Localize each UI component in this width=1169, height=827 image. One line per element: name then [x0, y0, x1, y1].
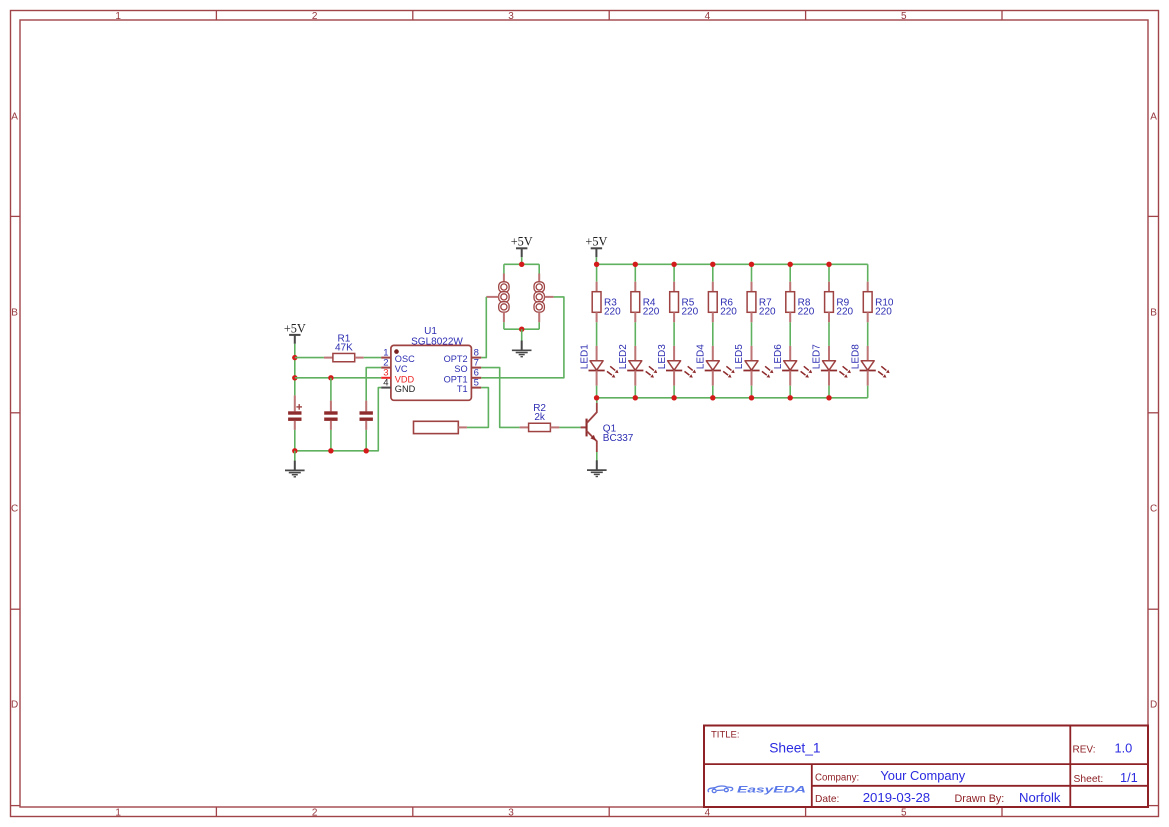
wire VDD rail to U1 pin 3 [295, 377, 381, 379]
svg-text:A: A [11, 112, 18, 123]
svg-text:OPT1: OPT1 [444, 374, 468, 384]
svg-text:LED2: LED2 [618, 344, 629, 369]
wire LED8 to bottom rail [867, 386, 869, 398]
wire R10 to LED8 [867, 322, 869, 346]
svg-text:220: 220 [836, 307, 853, 318]
svg-text:Sheet:: Sheet: [1074, 774, 1104, 785]
wire R3 to LED1 [596, 322, 598, 346]
wire left pad to bottom rail [503, 322, 505, 329]
wire top rail to right pad [538, 264, 540, 273]
wire R8 to LED6 [789, 322, 791, 346]
wire R5 to LED3 [673, 322, 675, 346]
wire LED5 to bottom rail [751, 386, 753, 398]
wire Q1 collector to LED rail [596, 398, 598, 403]
connector right touch pad [534, 274, 544, 323]
wire +5V left column upper [294, 344, 296, 396]
wire top rail to R7 [751, 264, 753, 281]
wire left pad to U1 OPT2 [481, 297, 486, 358]
svg-text:2: 2 [312, 11, 318, 22]
frame ruler numbers bottom [115, 808, 907, 819]
U1 pin 7 SO [454, 357, 481, 374]
svg-text:3: 3 [508, 11, 514, 22]
svg-text:+5V: +5V [585, 234, 607, 248]
LED LED6 [773, 344, 812, 386]
Date label [815, 794, 839, 805]
wire U1 T1 to touch plate [467, 388, 489, 428]
wire LED6 to bottom rail [789, 386, 791, 398]
rev value 1.0 [1115, 741, 1133, 756]
svg-text:2k: 2k [534, 412, 546, 423]
svg-text:2019-03-28: 2019-03-28 [863, 790, 930, 805]
wire LED bottom rail [597, 397, 868, 399]
junction top rail branch 6 [788, 262, 793, 267]
wire U1 pin 2 VC to C3 [366, 368, 381, 401]
junction bottom rail branch 4 [710, 395, 715, 400]
svg-text:C: C [11, 503, 18, 514]
wire R1 to U1 pin 1 [364, 357, 382, 359]
wire LED4 to bottom rail [712, 386, 714, 398]
svg-text:LED1: LED1 [579, 344, 590, 369]
wire pad bottom rail [504, 328, 539, 330]
power +5V (left) [284, 322, 306, 344]
svg-text:LED6: LED6 [773, 344, 784, 369]
svg-text:1: 1 [115, 808, 121, 819]
frame ruler numbers top [115, 11, 907, 22]
wire LED1 to bottom rail [596, 386, 598, 398]
LED LED7 [812, 344, 851, 386]
junction pad top rail [519, 262, 524, 267]
U1 pin 4 GND [381, 377, 415, 394]
wire C2 to ground rail [330, 430, 332, 451]
LED LED4 [696, 344, 735, 386]
svg-text:220: 220 [759, 307, 776, 318]
wire top rail to left pad [503, 264, 505, 273]
resistor R10 220 [863, 282, 894, 323]
svg-text:2: 2 [312, 808, 318, 819]
wire LED3 to bottom rail [673, 386, 675, 398]
svg-text:LED4: LED4 [696, 344, 707, 369]
wire pad top rail [504, 263, 539, 265]
junction bottom rail branch 1 [594, 395, 599, 400]
junction bottom rail branch 6 [788, 395, 793, 400]
wire R7 to LED5 [751, 322, 753, 346]
svg-text:VDD: VDD [395, 374, 415, 384]
capacitor C2 [324, 401, 337, 430]
connector left touch pad [499, 274, 509, 323]
junction bottom rail branch 5 [749, 395, 754, 400]
capacitor C1 (polarized) [288, 395, 302, 430]
resistor R9 220 [825, 282, 854, 323]
wire R4 to LED2 [634, 322, 636, 346]
frame ruler letters left [11, 112, 18, 711]
op-amp U1 SGL8022W body [391, 326, 472, 401]
svg-text:220: 220 [643, 307, 660, 318]
LED LED1 [579, 344, 618, 386]
U1 pin 6 OPT1 [444, 368, 482, 385]
wire top rail to R9 [828, 264, 830, 281]
date value 2019-03-28 [863, 790, 930, 805]
svg-text:U1: U1 [424, 326, 437, 337]
svg-text:B: B [11, 307, 18, 318]
resistor R7 220 [747, 282, 776, 323]
svg-text:4: 4 [705, 808, 711, 819]
wire top rail to R10 [867, 264, 869, 281]
U1 pin 8 OPT2 [444, 347, 482, 364]
svg-text:4: 4 [705, 11, 711, 22]
junction bottom rail branch 2 [633, 395, 638, 400]
wire C1 to ground rail [294, 430, 296, 451]
junction top rail branch 2 [633, 262, 638, 267]
resistor R2 2k [520, 403, 560, 431]
svg-text:Norfolk: Norfolk [1019, 790, 1061, 805]
LED LED8 [850, 344, 889, 386]
junction +5V / R1 [292, 355, 297, 360]
junction VDD / C2 [328, 375, 333, 380]
svg-text:LED3: LED3 [657, 344, 668, 369]
svg-text:BC337: BC337 [603, 433, 634, 444]
junction top rail branch 1 [594, 262, 599, 267]
Company label [815, 772, 859, 783]
wire R6 to LED4 [712, 322, 714, 346]
capacitor C3 [360, 401, 373, 430]
frame ruler letters right [1150, 112, 1157, 711]
resistor R4 220 [631, 282, 660, 323]
wire ground rail to U1 pin 4 [295, 388, 381, 451]
svg-text:B: B [1150, 307, 1157, 318]
svg-text:3: 3 [508, 808, 514, 819]
svg-text:220: 220 [604, 307, 621, 318]
title block TITLE label [711, 730, 740, 741]
wire C3 to ground rail [365, 430, 367, 451]
wire right pad to U1 OPT1 [481, 297, 564, 378]
sheet value 1/1 [1120, 770, 1138, 785]
svg-text:220: 220 [798, 307, 815, 318]
ground (touch pads) [512, 341, 532, 357]
junction ground rail / C1 [292, 448, 297, 453]
junction ground rail / C3 [364, 448, 369, 453]
wire VDD to C2 [330, 378, 332, 401]
svg-text:OSC: OSC [395, 354, 415, 364]
svg-text:SO: SO [454, 364, 467, 374]
ground (left) [285, 461, 305, 477]
U1 pin 5 T1 [457, 377, 481, 394]
svg-text:T1: T1 [457, 384, 468, 394]
svg-text:1: 1 [115, 11, 121, 22]
junction ground rail / C2 [328, 448, 333, 453]
power +5V (LED array) [585, 234, 607, 257]
LED LED2 [618, 344, 657, 386]
U1 pin 1 OSC [381, 347, 415, 364]
junction bottom rail branch 7 [826, 395, 831, 400]
svg-text:Date:: Date: [815, 794, 839, 805]
svg-text:47K: 47K [335, 342, 353, 353]
wire R2 to Q1 base [559, 426, 580, 428]
ground (Q1) [587, 460, 607, 476]
drawn by value Norfolk [1019, 790, 1061, 805]
svg-text:SGL8022W: SGL8022W [411, 336, 463, 347]
svg-text:Your Company: Your Company [880, 768, 965, 783]
wire top rail to R3 [596, 264, 598, 281]
resistor R6 220 [708, 282, 737, 323]
U1 pin 2 VC [381, 357, 408, 374]
touch plate (unlabeled rectangle) [414, 421, 467, 433]
svg-text:Drawn By:: Drawn By: [955, 793, 1005, 805]
svg-text:1.0: 1.0 [1115, 741, 1133, 756]
svg-text:LED5: LED5 [734, 344, 745, 369]
wire +5V to R1 [295, 357, 324, 359]
Sheet label [1074, 774, 1104, 785]
EasyEDA logo [708, 785, 806, 795]
svg-text:220: 220 [682, 307, 699, 318]
U1 pin 3 VDD [381, 368, 414, 385]
svg-text:TITLE:: TITLE: [711, 730, 740, 741]
svg-text:220: 220 [720, 307, 737, 318]
svg-text:Company:: Company: [815, 772, 859, 783]
Drawn By label [955, 793, 1005, 805]
wire LED7 to bottom rail [828, 386, 830, 398]
junction +5V / VDD rail [292, 375, 297, 380]
wire R9 to LED7 [828, 322, 830, 346]
svg-text:220: 220 [875, 307, 892, 318]
resistor R3 220 [592, 282, 621, 323]
svg-text:+5V: +5V [284, 322, 306, 336]
svg-text:C: C [1150, 503, 1157, 514]
junction top rail branch 3 [671, 262, 676, 267]
wire LED2 to bottom rail [634, 386, 636, 398]
wire top rail to R5 [673, 264, 675, 281]
right pad middle pin lead [545, 296, 554, 298]
svg-text:OPT2: OPT2 [444, 354, 468, 364]
wire LED top rail [596, 263, 867, 265]
wire Q1 emitter to ground [596, 452, 598, 461]
LED LED5 [734, 344, 773, 386]
REV label [1073, 744, 1096, 755]
junction top rail branch 7 [826, 262, 831, 267]
company value Your Company [880, 768, 965, 783]
wire top rail to R4 [634, 264, 636, 281]
left pad middle pin lead [486, 296, 498, 298]
title Sheet_1 [769, 741, 820, 756]
svg-text:4: 4 [383, 377, 388, 388]
wire to ground symbol left [294, 451, 296, 461]
svg-text:+5V: +5V [511, 234, 533, 248]
wire right pad to bottom rail [538, 322, 540, 329]
junction top rail branch 4 [710, 262, 715, 267]
wire top rail to R8 [789, 264, 791, 281]
svg-text:REV:: REV: [1073, 744, 1096, 755]
svg-text:D: D [1150, 699, 1157, 710]
resistor R5 220 [670, 282, 699, 323]
title block frame [704, 726, 1148, 808]
junction top rail branch 5 [749, 262, 754, 267]
svg-text:LED7: LED7 [812, 344, 823, 369]
power +5V (touch pads) [511, 234, 533, 257]
LED LED3 [657, 344, 696, 386]
svg-text:EasyEDA: EasyEDA [737, 785, 806, 795]
svg-text:5: 5 [474, 377, 479, 388]
svg-text:Sheet_1: Sheet_1 [769, 741, 820, 756]
transistor Q1 BC337 [581, 403, 634, 452]
junction bottom rail branch 3 [671, 395, 676, 400]
wire +5V stem to pad rail [521, 257, 523, 264]
svg-text:LED8: LED8 [850, 344, 861, 369]
junction pad bottom rail / ground [519, 327, 524, 332]
wire U1 SO to R2 [481, 368, 519, 428]
resistor R8 220 [786, 282, 815, 323]
svg-text:1/1: 1/1 [1120, 770, 1138, 785]
wire +5V stem to LED rail [595, 257, 597, 264]
svg-text:5: 5 [901, 808, 907, 819]
svg-text:GND: GND [395, 384, 416, 394]
svg-text:5: 5 [901, 11, 907, 22]
wire pad rail to ground [521, 329, 523, 341]
svg-text:A: A [1150, 112, 1157, 123]
resistor R1 47K [324, 333, 364, 361]
svg-text:D: D [11, 699, 18, 710]
svg-text:VC: VC [395, 364, 408, 374]
wire top rail to R6 [712, 264, 714, 281]
